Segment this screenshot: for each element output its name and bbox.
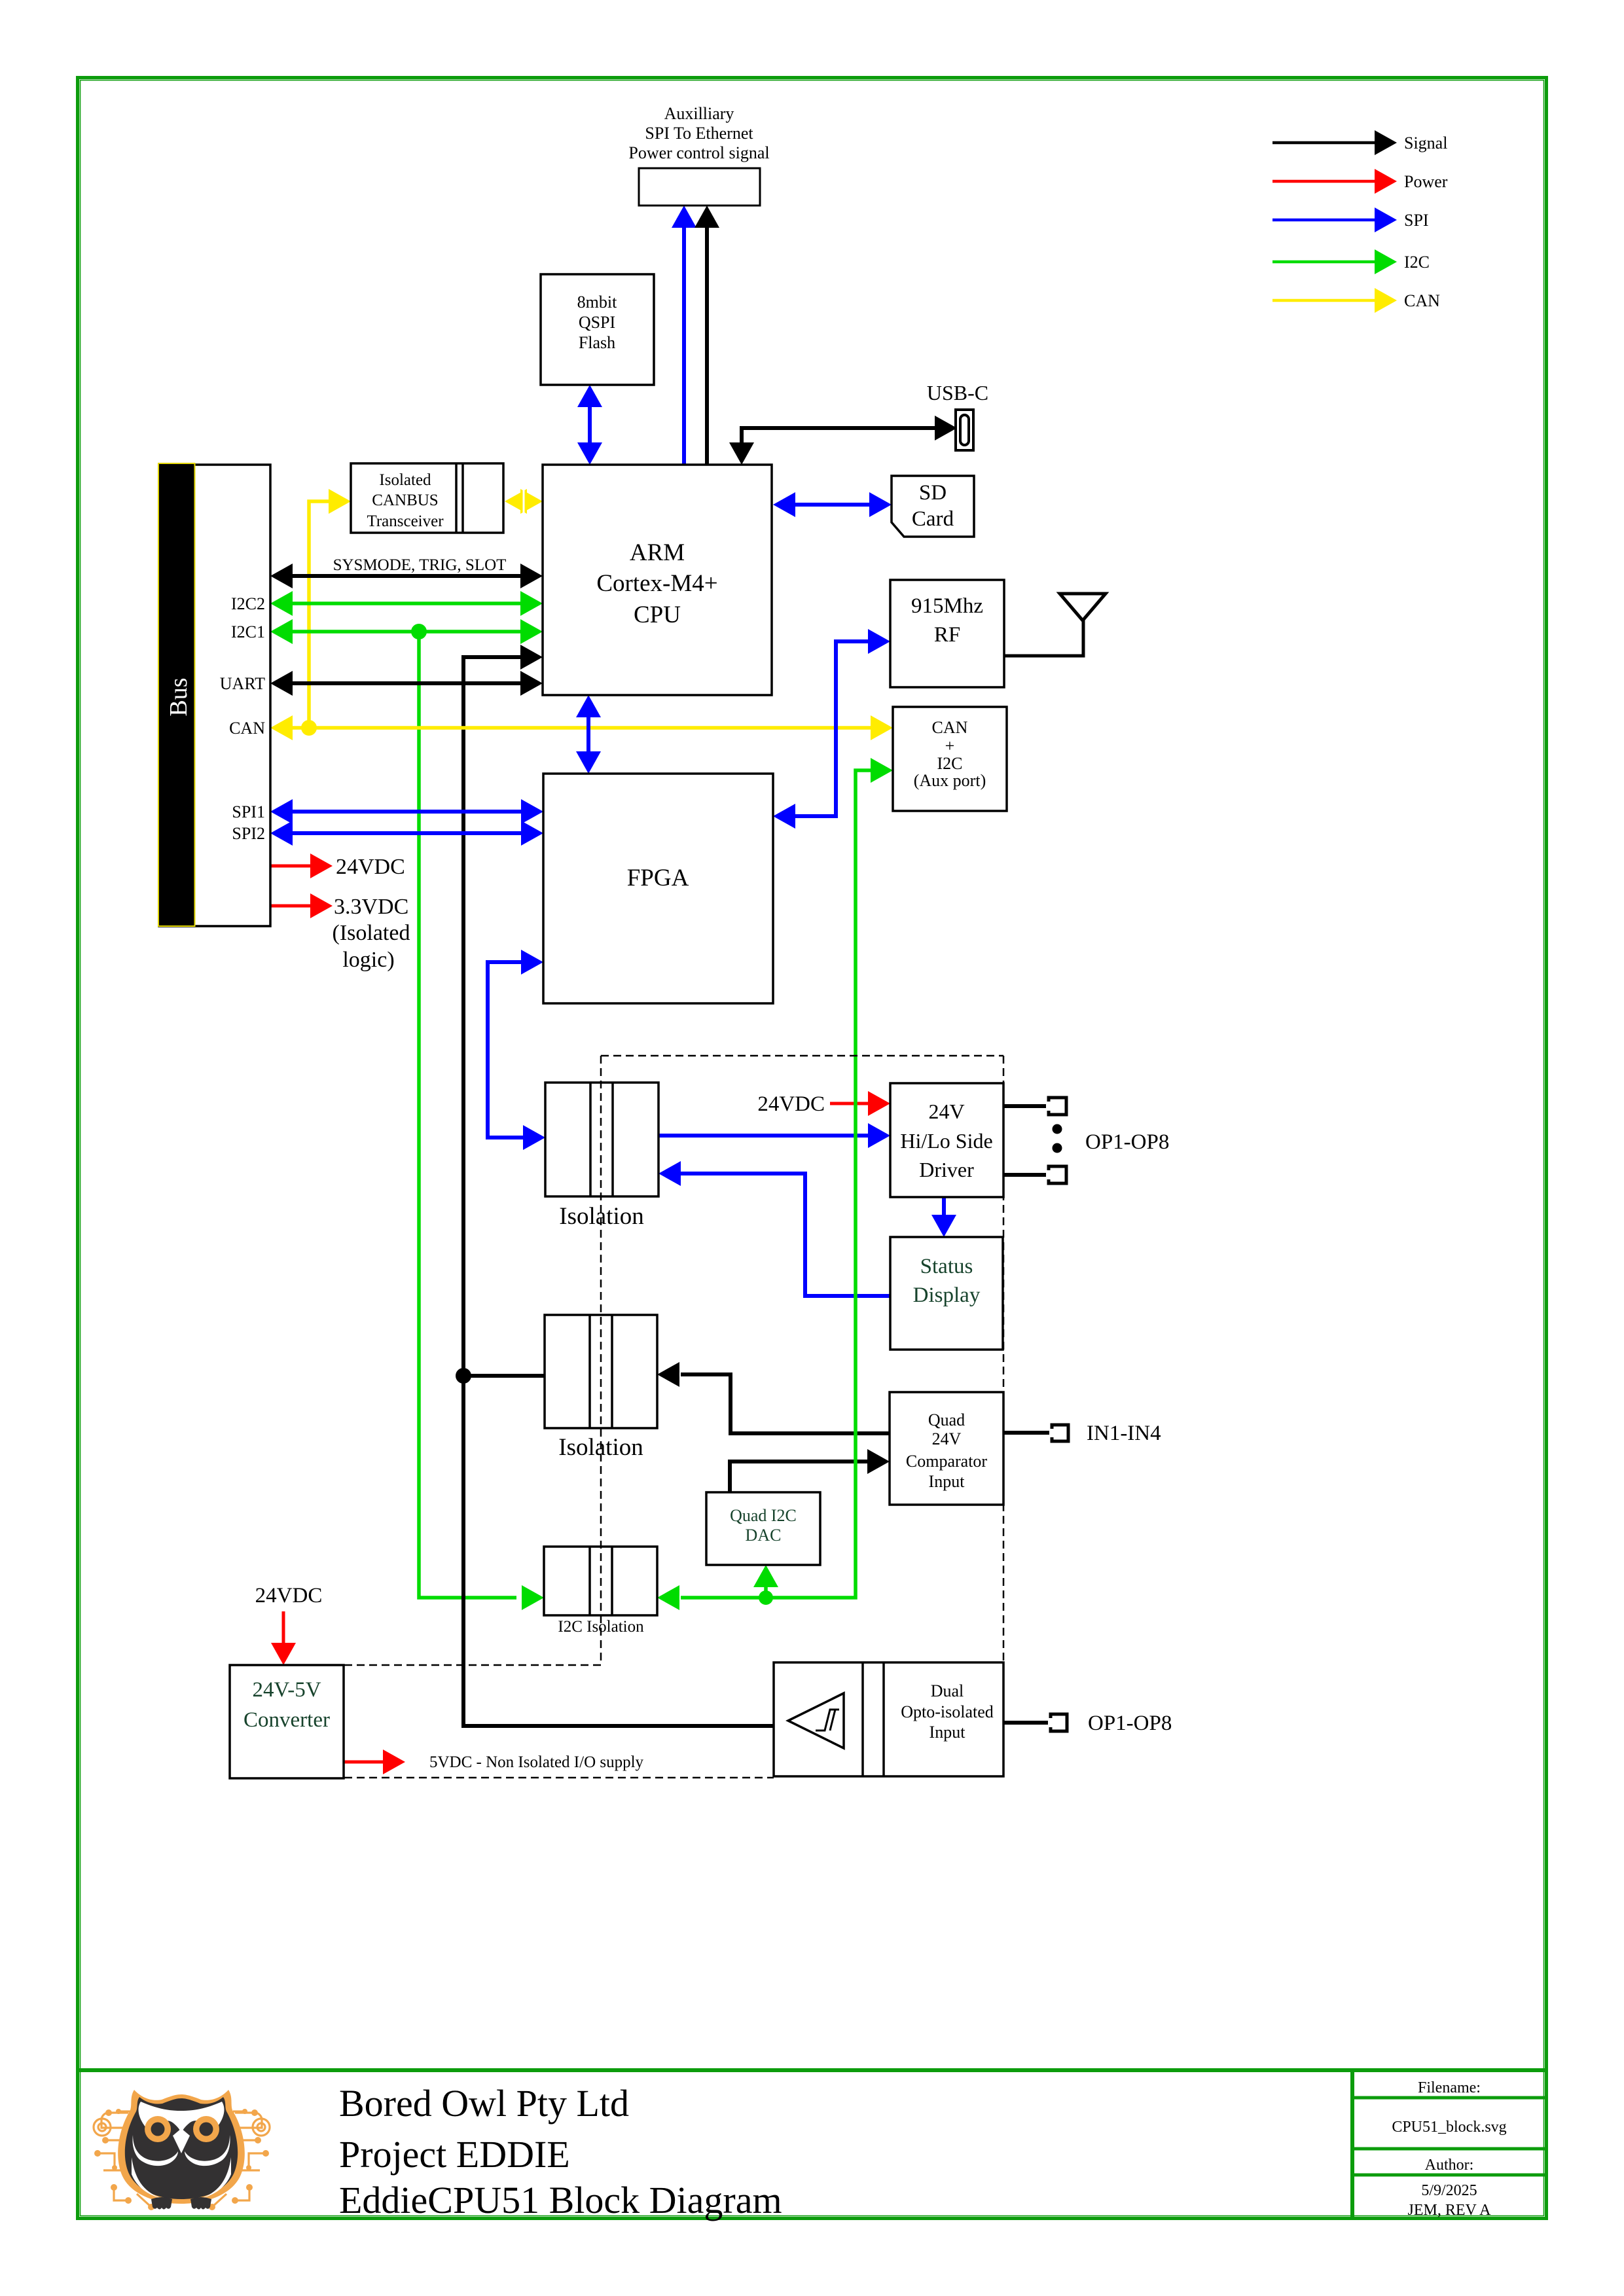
connector OP bottom — [1048, 1714, 1067, 1731]
label 24V-5V Converter — [244, 1678, 330, 1732]
wire: green right net to CAN+I2C and DAC — [657, 758, 893, 1610]
svg-text:logic): logic) — [342, 948, 394, 972]
svg-text:Driver: Driver — [919, 1158, 974, 1181]
svg-text:CAN: CAN — [1404, 291, 1440, 310]
aux ethernet box — [639, 168, 760, 206]
svg-text:SYSMODE, TRIG, SLOT: SYSMODE, TRIG, SLOT — [333, 556, 507, 574]
svg-text:Power control signal: Power control signal — [628, 143, 769, 162]
title block table row line 3 — [1352, 2174, 1546, 2177]
comparator triangle symbol — [788, 1693, 844, 1748]
wire: red 24VDC stub — [270, 853, 333, 878]
svg-text:Dual: Dual — [931, 1681, 964, 1700]
svg-text:Converter: Converter — [244, 1708, 330, 1732]
svg-text:Signal: Signal — [1404, 134, 1447, 152]
QSPI flash box — [541, 274, 654, 385]
wire: blue driver to status display — [931, 1197, 956, 1237]
bus outline box — [159, 465, 270, 926]
isolated CANBUS transceiver box — [351, 463, 503, 533]
wire: blue isolation1 to driver — [659, 1123, 890, 1148]
owl facial disk white arcs — [132, 2135, 230, 2166]
svg-text:Hi/Lo Side: Hi/Lo Side — [900, 1129, 992, 1153]
wire: comparator to IN connector — [1003, 1431, 1060, 1435]
isolation box 1 — [545, 1083, 659, 1196]
wire: red 5VDC from converter — [344, 1749, 405, 1774]
svg-text:SPI: SPI — [1404, 211, 1429, 230]
svg-text:(Aux port): (Aux port) — [914, 771, 986, 790]
svg-text:QSPI: QSPI — [579, 313, 615, 332]
svg-text:24VDC: 24VDC — [757, 1092, 825, 1116]
label CAN + I2C (Aux port) — [914, 718, 986, 790]
svg-text:Quad I2C: Quad I2C — [730, 1506, 797, 1525]
wire: yellow up to CANBUS transceiver — [309, 489, 351, 728]
wire: blue CPU to aux ethernet — [672, 206, 696, 465]
svg-text:CPU: CPU — [634, 601, 681, 628]
wire: opto input to OP connector — [1003, 1721, 1058, 1725]
svg-text:EddieCPU51 Block Diagram: EddieCPU51 Block Diagram — [339, 2179, 782, 2221]
24V hi/lo side driver box — [890, 1083, 1003, 1197]
label Status Display — [913, 1255, 981, 1307]
svg-text:(Isolated: (Isolated — [333, 921, 410, 945]
svg-text:USB-C: USB-C — [927, 381, 988, 404]
svg-text:24VDC: 24VDC — [255, 1584, 323, 1607]
title block top line — [76, 2068, 1548, 2072]
svg-text:Auxilliary: Auxilliary — [664, 104, 734, 123]
legend: CAN arrow — [1272, 288, 1397, 313]
wire: driver to OP1 connector — [1003, 1104, 1056, 1108]
svg-text:I2C1: I2C1 — [231, 622, 265, 641]
svg-text:24V-5V: 24V-5V — [252, 1678, 321, 1702]
wire: red 3.3VDC stub — [270, 893, 333, 918]
wire: black CPU-USBC — [729, 416, 957, 465]
svg-text:Cortex-M4+: Cortex-M4+ — [596, 570, 717, 597]
label Dual Opto-isolated Input — [901, 1681, 994, 1742]
svg-text:Status: Status — [920, 1255, 973, 1278]
I2C isolation box — [544, 1547, 657, 1615]
wire: blue CPU-FPGA — [576, 695, 601, 774]
isolation box 2 — [545, 1315, 657, 1428]
wire: blue FPGA-isolation1 — [488, 950, 545, 1150]
svg-text:24VDC: 24VDC — [336, 855, 405, 879]
svg-text:5VDC - Non Isolated I/O supply: 5VDC - Non Isolated I/O supply — [429, 1753, 644, 1771]
legend: SPI arrow — [1272, 207, 1397, 232]
svg-text:Flash: Flash — [579, 333, 615, 352]
junction: green node on I2C1 — [411, 624, 427, 639]
owl right eye — [193, 2116, 219, 2142]
label SD Card — [912, 481, 954, 531]
label ARM Cortex-M4+ CPU — [596, 539, 717, 628]
wire: black UART — [270, 671, 543, 696]
svg-text:+: + — [945, 736, 955, 755]
svg-text:Display: Display — [913, 1283, 981, 1307]
dashed isolation boundary top — [601, 1055, 1003, 1057]
legend: Signal arrow — [1272, 130, 1397, 155]
dashed isolation boundary right — [1003, 1056, 1005, 1662]
SD card box — [892, 476, 974, 537]
wire: green I2C1 long vertical to I2C isolation — [419, 632, 544, 1610]
dashed non-isolated boundary top — [344, 1664, 601, 1666]
junction: black node at isolation 2 branch — [456, 1368, 471, 1384]
title block table row line 1 — [1352, 2096, 1546, 2100]
label 915Mhz RF — [911, 594, 983, 647]
svg-text:UART: UART — [220, 674, 265, 693]
wire: black CPU to aux ethernet — [695, 206, 719, 465]
wire: yellow CAN bus line — [270, 715, 893, 740]
owl body dark — [125, 2097, 238, 2199]
bus black bar — [158, 463, 195, 926]
owl white head cap — [139, 2102, 225, 2133]
label Auxilliary SPI To Ethernet Power control signal — [628, 104, 769, 162]
svg-text:Bored Owl Pty Ltd: Bored Owl Pty Ltd — [339, 2082, 629, 2125]
wire: red 24VDC to converter — [271, 1611, 296, 1665]
svg-text:ARM: ARM — [630, 539, 685, 566]
wire: black CPU-FPGA net down to opto input — [463, 645, 774, 1726]
svg-text:5/9/2025: 5/9/2025 — [1421, 2182, 1477, 2199]
svg-text:Input: Input — [929, 1723, 966, 1742]
svg-text:Quad: Quad — [928, 1410, 965, 1429]
svg-text:915Mhz: 915Mhz — [911, 594, 983, 618]
wire: green I2C1 — [270, 619, 543, 644]
quad I2C DAC box — [706, 1492, 820, 1565]
svg-text:CANBUS: CANBUS — [372, 492, 438, 509]
svg-text:SPI To Ethernet: SPI To Ethernet — [645, 124, 753, 143]
owl beak — [173, 2128, 190, 2153]
svg-text:Bus: Bus — [165, 677, 192, 716]
title block table left line — [1350, 2070, 1354, 2218]
ellipsis dots OP1-OP8 — [1053, 1124, 1062, 1153]
svg-text:SD: SD — [919, 481, 947, 505]
svg-text:FPGA: FPGA — [627, 865, 689, 891]
wire: yellow double arrow transceiver-CPU — [505, 489, 543, 514]
svg-text:Transceiver: Transceiver — [367, 512, 444, 530]
svg-text:JEM, REV A: JEM, REV A — [1408, 2202, 1492, 2219]
24V-5V converter box — [230, 1665, 344, 1778]
antenna — [1060, 594, 1106, 620]
title block table row line 2 — [1352, 2147, 1546, 2151]
wire: black DAC to comparator — [730, 1449, 890, 1492]
junction: yellow node — [301, 720, 317, 736]
wire: blue QSPI-CPU — [577, 385, 602, 465]
svg-text:Comparator: Comparator — [906, 1452, 988, 1471]
svg-text:I2C: I2C — [937, 754, 963, 773]
svg-text:Author:: Author: — [1425, 2157, 1474, 2174]
svg-text:3.3VDC: 3.3VDC — [334, 895, 408, 919]
wire: blue SPI1 — [270, 799, 543, 824]
wire: black comparator to isolation2 — [657, 1362, 890, 1433]
legend: Power arrow — [1272, 169, 1397, 194]
svg-text:OP1-OP8: OP1-OP8 — [1085, 1130, 1169, 1154]
svg-text:I2C: I2C — [1404, 253, 1430, 272]
connector OP top 2 — [1046, 1166, 1066, 1183]
svg-text:I2C2: I2C2 — [231, 594, 265, 613]
svg-text:IN1-IN4: IN1-IN4 — [1087, 1422, 1161, 1445]
label Quad 24V Comparator Input — [906, 1410, 988, 1491]
svg-text:24V: 24V — [928, 1100, 964, 1123]
dual opto-isolated input box — [774, 1662, 1003, 1776]
dashed isolation boundary left — [600, 1056, 602, 1665]
svg-text:CAN: CAN — [229, 719, 265, 738]
svg-text:24V: 24V — [932, 1429, 962, 1448]
wire: blue CPU-SD card — [773, 492, 892, 517]
wire: blue status display to isolation1 — [659, 1161, 890, 1296]
wire: driver to OP8 connector — [1003, 1173, 1056, 1177]
status display box — [890, 1237, 1003, 1350]
svg-text:RF: RF — [934, 623, 960, 647]
wire: black branch to isolation 2 — [463, 1374, 545, 1378]
svg-text:CPU51_block.svg: CPU51_block.svg — [1392, 2119, 1506, 2136]
svg-text:Power: Power — [1404, 172, 1448, 191]
label 24V Hi/Lo Side Driver — [900, 1100, 992, 1181]
label 8mbit QSPI Flash — [577, 293, 617, 352]
svg-text:SPI2: SPI2 — [232, 824, 265, 843]
junction: green node near DAC — [759, 1590, 773, 1605]
svg-text:CAN: CAN — [932, 718, 968, 737]
svg-text:Card: Card — [912, 507, 954, 531]
quad comparator input box — [890, 1392, 1003, 1505]
wire: black RF to antenna — [1004, 620, 1083, 656]
owl feet — [151, 2197, 211, 2210]
wire: black SYSMODE TRIG SLOT — [270, 564, 543, 588]
label Quad I2C DAC — [730, 1506, 797, 1545]
legend: I2C arrow — [1272, 249, 1397, 274]
svg-text:8mbit: 8mbit — [577, 293, 617, 312]
label Isolated CANBUS Transceiver — [367, 471, 444, 530]
logo: Bored Owl — [94, 2090, 270, 2210]
svg-text:OP1-OP8: OP1-OP8 — [1088, 1712, 1172, 1735]
svg-text:Filename:: Filename: — [1418, 2079, 1481, 2096]
CAN + I2C aux port box — [893, 707, 1007, 811]
owl left eye — [145, 2116, 171, 2142]
connector OP top 1 — [1046, 1098, 1066, 1115]
wire: blue SPI2 — [270, 821, 543, 846]
svg-text:Isolated: Isolated — [379, 471, 431, 489]
svg-text:DAC: DAC — [746, 1526, 782, 1545]
wire: blue FPGA-RF — [773, 629, 890, 829]
owl wing lines — [132, 2157, 162, 2198]
915Mhz RF box — [890, 580, 1004, 687]
label 3.3VDC (Isolated logic) — [333, 895, 410, 972]
svg-text:Input: Input — [929, 1472, 965, 1491]
CPU box — [543, 465, 772, 695]
owl silhouette orange — [118, 2090, 245, 2204]
USB-C connector symbol — [956, 410, 973, 450]
dashed non-isolated boundary bottom — [344, 1777, 774, 1779]
wire: green I2C2 — [270, 591, 543, 616]
svg-text:SPI1: SPI1 — [232, 802, 265, 821]
svg-text:Project EDDIE: Project EDDIE — [339, 2133, 570, 2176]
wire: red 24VDC to driver — [830, 1091, 890, 1116]
connector IN1-IN4 — [1049, 1425, 1068, 1441]
svg-text:Opto-isolated: Opto-isolated — [901, 1702, 994, 1721]
FPGA box — [543, 774, 773, 1003]
